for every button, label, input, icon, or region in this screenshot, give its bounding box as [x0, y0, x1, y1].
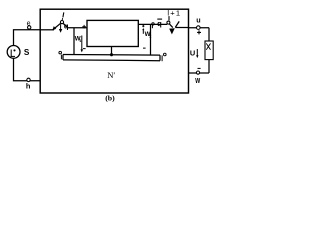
svg-text:S: S — [24, 48, 30, 57]
svg-text:w: w — [195, 75, 201, 86]
svg-text:N′: N′ — [107, 70, 115, 80]
svg-text:u: u — [196, 15, 200, 24]
svg-text:l+1: l+1 — [167, 8, 181, 17]
svg-text:q: q — [157, 19, 162, 28]
svg-text:q: q — [64, 21, 69, 30]
svg-text:e: e — [27, 21, 31, 28]
svg-text:2: 2 — [149, 35, 151, 39]
svg-text:(b): (b) — [105, 94, 115, 103]
svg-text:h: h — [26, 81, 31, 90]
svg-text:1: 1 — [79, 39, 81, 43]
svg-text:U: U — [190, 49, 195, 58]
